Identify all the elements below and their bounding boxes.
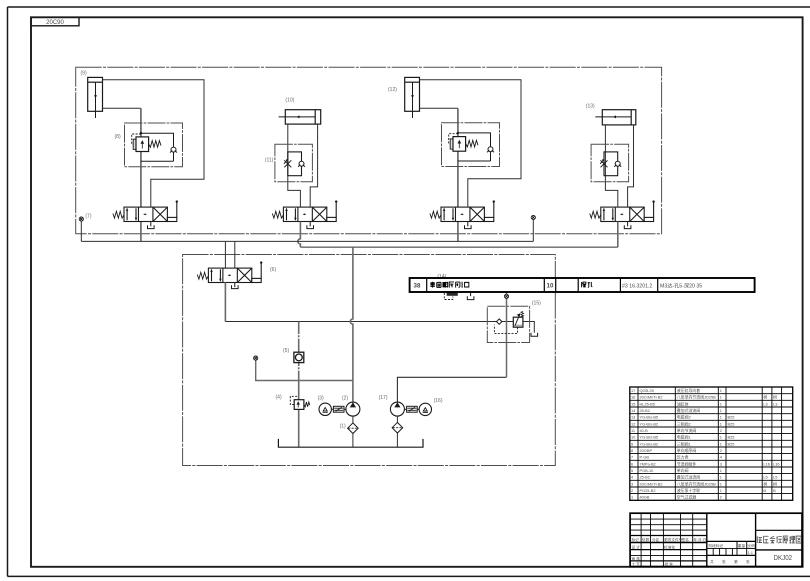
wire cyl12 rod port to riser xyxy=(420,107,458,109)
wire coupling to pump2 xyxy=(344,408,346,410)
svg-text:(12): (12) xyxy=(388,87,397,93)
drain stub valve6 xyxy=(234,282,236,287)
svg-text:液压泵十字联: 液压泵十字联 xyxy=(677,488,700,493)
CB valve arrow xyxy=(141,141,143,149)
svg-text:1: 1 xyxy=(720,395,722,400)
wire cyl9 top port to valve port B xyxy=(103,80,205,207)
svg-text:三相阀2: 三相阀2 xyxy=(677,421,691,426)
svg-text:电磁阀1: 电磁阀1 xyxy=(677,435,691,440)
wire riser circuit2 with hop over bus1 xyxy=(298,222,301,248)
drain tank valve6 xyxy=(232,285,239,288)
svg-text:审 核: 审 核 xyxy=(632,556,641,561)
svg-text:空气过滤器: 空气过滤器 xyxy=(677,495,697,500)
svg-text:单向阀: 单向阀 xyxy=(677,468,689,473)
wire bus1 to valve6 port P xyxy=(224,241,226,268)
svg-text:树: 树 xyxy=(763,395,767,400)
svg-text:1: 1 xyxy=(720,408,722,413)
chain box of CB valve xyxy=(125,123,183,167)
svg-text:八层单向节流阀JD25B: 八层单向节流阀JD25B xyxy=(677,481,716,486)
svg-text:YG-BG-B5: YG-BG-B5 xyxy=(640,435,659,440)
wire cyl13 right port to port B xyxy=(628,125,634,207)
tank at relief valve 15 outlet xyxy=(531,333,538,336)
directional valve circuit2 xyxy=(272,200,337,221)
wire pump17 riser and line377 xyxy=(397,377,506,402)
svg-text:1: 1 xyxy=(720,401,722,406)
flow control valve (11) group xyxy=(275,144,313,182)
CB internal top line xyxy=(141,133,174,147)
chain box: actuator group boundary xyxy=(76,67,662,233)
svg-text:第: 第 xyxy=(734,559,738,564)
svg-text:M3达-孔5-深20 35: M3达-孔5-深20 35 xyxy=(660,281,702,289)
svg-text:(5): (5) xyxy=(283,348,289,354)
wire cyl9 rod port to riser xyxy=(103,107,141,109)
svg-text:5: 5 xyxy=(631,468,633,473)
electric motor (16) xyxy=(419,403,431,415)
svg-text:批 准: 批 准 xyxy=(665,561,674,566)
svg-text:40GB: 40GB xyxy=(640,495,650,500)
cylinder (12) xyxy=(405,77,420,118)
svg-text:标准化: 标准化 xyxy=(664,544,675,549)
drain tank circuit2 xyxy=(307,225,314,228)
svg-text:17: 17 xyxy=(631,388,635,393)
svg-text:38: 38 xyxy=(414,283,421,290)
filter under pump17 xyxy=(392,422,403,433)
svg-text:YG-BG-B5: YG-BG-B5 xyxy=(640,415,659,420)
drain stub circuit1 xyxy=(150,222,152,227)
svg-text:DKJ02: DKJ02 xyxy=(774,553,793,562)
svg-text:20CrMnTi-B2: 20CrMnTi-B2 xyxy=(640,481,663,486)
junction dot xyxy=(140,132,142,134)
flow control valve circuit4 xyxy=(591,144,629,182)
drain stub circuit2 xyxy=(309,222,311,227)
svg-text:树: 树 xyxy=(763,481,767,486)
svg-text:比例: 比例 xyxy=(747,543,755,548)
wire motor3 to coupling xyxy=(331,408,333,410)
coupling right xyxy=(407,406,418,412)
chain box: power unit boundary xyxy=(183,255,556,466)
svg-text:B25: B25 xyxy=(728,415,735,420)
svg-text:叠加式溢流阀: 叠加式溢流阀 xyxy=(677,408,700,413)
svg-text:1:1: 1:1 xyxy=(748,551,753,555)
chain box of relief valve 15 xyxy=(487,306,529,342)
svg-text:1: 1 xyxy=(631,495,633,500)
directional valve circuit4 xyxy=(590,200,655,221)
gauge point (pump2 pressure) xyxy=(504,294,508,298)
svg-text:20CrMnTi-B2: 20CrMnTi-B2 xyxy=(640,395,663,400)
svg-text:B25: B25 xyxy=(728,421,735,426)
svg-text:(2): (2) xyxy=(342,395,348,401)
directional valve circuit1 xyxy=(113,200,178,221)
svg-text:L3: L3 xyxy=(763,401,767,406)
svg-text:树: 树 xyxy=(773,395,777,400)
svg-text:(7): (7) xyxy=(85,213,91,219)
svg-text:液压缸导向套: 液压缸导向套 xyxy=(677,388,700,393)
svg-text:L16: L16 xyxy=(773,461,780,466)
CB spring xyxy=(149,141,161,148)
pump (17) xyxy=(390,402,404,416)
svg-text:1: 1 xyxy=(720,421,722,426)
drain stub circuit4 xyxy=(627,222,629,227)
svg-text:13: 13 xyxy=(631,415,635,420)
svg-text:电磁阀2: 电磁阀2 xyxy=(677,415,691,420)
svg-text:设 计: 设 计 xyxy=(632,544,641,549)
svg-text:20GBP: 20GBP xyxy=(640,448,653,453)
valve14 drain stub xyxy=(470,293,472,297)
svg-text:2: 2 xyxy=(720,495,722,500)
wire pump2 to filter1 xyxy=(352,416,354,423)
svg-text:单向节流阀: 单向节流阀 xyxy=(677,428,697,433)
svg-text:压力表: 压力表 xyxy=(677,455,689,460)
svg-text:1: 1 xyxy=(720,435,722,440)
valve14 visible bottom xyxy=(447,292,458,296)
drain tank circuit1 xyxy=(148,225,155,228)
relief15 check diamond xyxy=(497,319,502,324)
drain tank circuit3 xyxy=(465,225,472,228)
svg-text:油缸体: 油缸体 xyxy=(677,401,689,406)
svg-text:标记: 标记 xyxy=(632,537,640,542)
wire pump17 to filter xyxy=(396,416,398,422)
svg-text:1: 1 xyxy=(720,475,722,480)
svg-text:8: 8 xyxy=(631,448,633,453)
wire riser circuit4 down to bus2 xyxy=(617,222,619,248)
wire cyl13 left port through flow valve to port A xyxy=(605,125,617,207)
svg-text:#3 16.3201.2: #3 16.3201.2 xyxy=(622,283,652,289)
table cell text 单向顺序阀I口 (pseudo-glyph strokes) xyxy=(430,282,468,288)
bus line 2 xyxy=(300,246,617,248)
svg-text:三相阀1: 三相阀1 xyxy=(677,441,691,446)
svg-text:P-GB: P-GB xyxy=(640,455,650,460)
svg-text:PG25-B2: PG25-B2 xyxy=(640,488,656,493)
svg-text:B25: B25 xyxy=(728,435,735,440)
svg-text:YG-BG-B2: YG-BG-B2 xyxy=(640,421,659,426)
svg-text:(4): (4) xyxy=(276,394,282,400)
svg-text:L5: L5 xyxy=(763,475,767,480)
svg-text:10: 10 xyxy=(547,283,554,290)
svg-text:签名: 签名 xyxy=(682,537,690,542)
gauge point (pump1 pressure) xyxy=(254,356,258,360)
svg-text:3: 3 xyxy=(631,481,633,486)
CB check valve xyxy=(170,147,177,152)
svg-text:20C90: 20C90 xyxy=(46,20,64,26)
throttle symbol xyxy=(284,159,291,167)
wire pump2 riser with hop over line321 xyxy=(350,247,353,402)
main reservoir tank xyxy=(278,439,423,447)
svg-text:(6): (6) xyxy=(270,267,276,273)
svg-text:年.月.日: 年.月.日 xyxy=(693,537,706,542)
wire line380 gauge to pump riser xyxy=(256,360,353,380)
svg-text:6: 6 xyxy=(631,461,633,466)
svg-text:(16): (16) xyxy=(434,398,443,404)
wire bus1 to valve6 port B xyxy=(234,241,236,268)
svg-text:1: 1 xyxy=(720,488,722,493)
svg-text:16: 16 xyxy=(631,395,635,400)
valve14 drain tank xyxy=(467,296,474,299)
svg-text:(1): (1) xyxy=(340,423,346,429)
svg-text:25-B2: 25-B2 xyxy=(640,408,650,413)
CB valve body square xyxy=(133,139,136,149)
svg-text:25-B2: 25-B2 xyxy=(640,475,650,480)
svg-text:(8): (8) xyxy=(115,134,121,140)
top-left drawing number box xyxy=(31,17,79,26)
wire cyl12 top port to valve port B xyxy=(420,80,522,207)
svg-text:L16: L16 xyxy=(763,461,770,466)
svg-text:叠加式溢流阀: 叠加式溢流阀 xyxy=(677,475,700,480)
svg-text:单向顺序阀: 单向顺序阀 xyxy=(677,448,697,453)
wire riser circuit3 xyxy=(457,108,459,241)
wire line321 to relief valve 15 and tank xyxy=(225,322,534,333)
svg-text:2: 2 xyxy=(720,448,722,453)
svg-text:B: B xyxy=(763,488,766,493)
svg-text:15: 15 xyxy=(631,401,635,406)
flow valve inner box xyxy=(288,152,302,176)
svg-text:(10): (10) xyxy=(285,98,294,104)
svg-text:7: 7 xyxy=(631,455,633,460)
title text 液压系统原理图 (pseudo-glyph strokes) xyxy=(757,536,801,543)
drain stub circuit3 xyxy=(467,222,469,227)
gauge point between circuit3 and circuit4 xyxy=(531,215,535,219)
svg-text:1: 1 xyxy=(720,468,722,473)
svg-text:B: B xyxy=(773,488,776,493)
wire cyl10 right port to port B xyxy=(310,124,317,207)
svg-text:八层单向节流阀JD25B: 八层单向节流阀JD25B xyxy=(677,395,716,400)
svg-text:张: 张 xyxy=(746,559,750,564)
wire filter1 to tank xyxy=(352,434,354,448)
svg-text:2: 2 xyxy=(631,488,633,493)
relief15 valve square xyxy=(513,317,523,327)
svg-text:B25: B25 xyxy=(728,441,735,446)
table cell text 螺孔 (pseudo-glyph strokes) xyxy=(581,282,592,288)
svg-text:(9): (9) xyxy=(81,71,87,77)
directional valve circuit3 xyxy=(430,200,495,221)
gauge point (7) xyxy=(79,217,83,221)
component (5) gauge isolator xyxy=(294,352,304,362)
cylinder (10) xyxy=(279,110,321,124)
wire riser circuit1 xyxy=(140,108,142,241)
wire pump17 to coupling xyxy=(404,408,406,410)
wire riser to relief 15 and gauge xyxy=(506,293,508,378)
svg-text:(11): (11) xyxy=(265,157,274,163)
counterbalance valve circuit3 xyxy=(442,123,500,167)
svg-text:1: 1 xyxy=(720,415,722,420)
coupling left xyxy=(333,406,344,412)
wire coupling to motor16 xyxy=(417,408,419,410)
bus line 1 xyxy=(81,240,533,242)
svg-text:节流阀组件: 节流阀组件 xyxy=(677,461,697,466)
relief valve (4) xyxy=(290,396,310,409)
svg-text:更改文件号: 更改文件号 xyxy=(664,537,683,542)
check valve on bypass xyxy=(298,161,305,166)
svg-text:11: 11 xyxy=(631,428,635,433)
svg-text:2: 2 xyxy=(720,428,722,433)
svg-text:张: 张 xyxy=(722,559,726,564)
relief15 internal arrow xyxy=(515,314,520,326)
CB internal bottom line xyxy=(141,152,174,161)
svg-text:重量: 重量 xyxy=(738,543,746,548)
pump (2) xyxy=(346,402,360,416)
svg-text:HL25-B5: HL25-B5 xyxy=(640,401,655,406)
cylinder (13) xyxy=(595,110,636,125)
svg-text:L5: L5 xyxy=(773,475,777,480)
wire riser through components 5 and 4 xyxy=(298,322,300,448)
svg-text:工 艺: 工 艺 xyxy=(632,561,641,566)
svg-text:L3: L3 xyxy=(773,401,777,406)
svg-text:分区: 分区 xyxy=(652,537,660,542)
chain box of flow valve xyxy=(275,144,313,182)
svg-text:阶段标记: 阶段标记 xyxy=(709,543,724,548)
svg-text:12: 12 xyxy=(631,421,635,426)
wire gauge7 down to bus1 xyxy=(80,221,82,241)
svg-text:40-B: 40-B xyxy=(640,428,649,433)
relief15 pilot dashed xyxy=(494,325,517,334)
svg-text:PGB-10: PGB-10 xyxy=(640,468,655,473)
svg-text:7MPa-B2: 7MPa-B2 xyxy=(640,461,656,466)
electric motor (3) xyxy=(319,403,331,415)
svg-text:共: 共 xyxy=(710,559,714,564)
wire valve6 bottom port down xyxy=(224,282,226,321)
svg-text:YG-BG-B2: YG-BG-B2 xyxy=(640,441,659,446)
counterbalance valve (8) group xyxy=(125,123,183,167)
svg-text:1: 1 xyxy=(720,388,722,393)
cylinder (9) xyxy=(88,77,103,118)
svg-text:QGB-25: QGB-25 xyxy=(640,388,654,393)
svg-text:处数: 处数 xyxy=(642,537,650,542)
filter (1) xyxy=(348,423,359,434)
svg-text:3: 3 xyxy=(720,461,722,466)
svg-text:1: 1 xyxy=(720,481,722,486)
wire cyl10 left port through flow valve to port A xyxy=(288,124,301,207)
svg-text:(15): (15) xyxy=(532,301,541,307)
svg-text:9: 9 xyxy=(631,441,633,446)
valve14 pilot dashed xyxy=(444,293,453,300)
svg-text:(13): (13) xyxy=(586,103,595,109)
drain tank circuit4 xyxy=(624,225,631,228)
svg-text:(3): (3) xyxy=(318,395,324,401)
CB pilot dashed line xyxy=(132,134,141,144)
svg-text:(17): (17) xyxy=(379,395,388,401)
wire filter to tank xyxy=(396,433,398,447)
relief15 spring xyxy=(521,311,524,316)
wire gauge down to bus1 xyxy=(532,220,534,242)
svg-text:1: 1 xyxy=(720,441,722,446)
svg-text:树: 树 xyxy=(773,481,777,486)
directional valve (6) xyxy=(197,261,262,282)
